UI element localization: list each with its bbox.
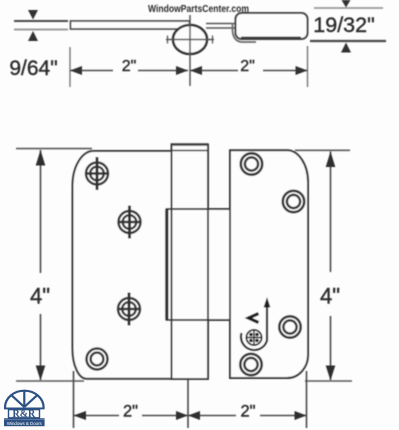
svg-text:2": 2" xyxy=(122,58,137,75)
svg-text:2": 2" xyxy=(240,403,255,421)
svg-text:9/64": 9/64" xyxy=(9,57,57,80)
svg-text:19/32": 19/32" xyxy=(313,13,374,37)
svg-text:WindowPartsCenter.com: WindowPartsCenter.com xyxy=(148,3,249,15)
svg-text:4": 4" xyxy=(320,284,340,309)
svg-text:2": 2" xyxy=(240,58,255,75)
svg-text:R&R: R&R xyxy=(13,409,37,420)
svg-text:2": 2" xyxy=(123,403,138,421)
svg-text:4": 4" xyxy=(30,284,50,309)
svg-text:Windows & Doors: Windows & Doors xyxy=(7,421,43,426)
